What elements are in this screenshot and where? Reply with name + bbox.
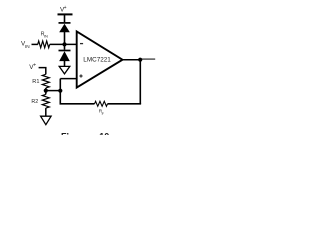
diode D2 (input clamp to ground) [59, 44, 71, 66]
node output junction dot [138, 58, 142, 62]
resistor R1 [32, 74, 49, 88]
ground symbol (below R2) [41, 116, 52, 125]
svg-text:LMC7221: LMC7221 [83, 57, 111, 64]
node A: clamp junction dot [62, 42, 66, 46]
svg-text:+: + [33, 63, 36, 69]
wire feedback bottom right [108, 103, 142, 105]
svg-text:10: 10 [99, 131, 109, 135]
caption Figure text (cut off at bottom) [61, 131, 109, 141]
wire RIN to inverting input [50, 43, 77, 45]
svg-text:IN: IN [25, 44, 30, 49]
wire divider node to node B [46, 90, 61, 92]
node R1/R2 divider dot [44, 88, 48, 93]
resistor RF [95, 101, 108, 116]
wire feedback left vertical to node B [59, 79, 61, 105]
svg-text:Fi: Fi [61, 131, 69, 135]
resistor RIN [38, 32, 50, 48]
svg-text:+: + [64, 5, 67, 11]
svg-text:IN: IN [44, 34, 48, 39]
wire op-amp output [122, 59, 142, 61]
wire feedback right vertical [139, 60, 141, 104]
wire feedback bottom left [60, 103, 95, 105]
svg-text:R2: R2 [31, 99, 38, 105]
wire VIN to RIN [32, 43, 38, 45]
label VIN [21, 40, 30, 49]
wire to non-inverting input [60, 78, 76, 80]
node B: non-inverting input junction dot [58, 89, 62, 93]
svg-text:F: F [102, 112, 105, 116]
node V+ supply rail (top) [58, 5, 73, 22]
ground symbol (below D2) [59, 66, 70, 74]
svg-text:R1: R1 [32, 79, 39, 85]
op-amp U1 LMC7221 [77, 32, 123, 88]
diode D1 (input clamp to V+) [59, 23, 71, 45]
resistor R2 [31, 91, 49, 116]
wire output stub (right) [142, 58, 156, 60]
node V+ supply (left) [29, 63, 46, 75]
